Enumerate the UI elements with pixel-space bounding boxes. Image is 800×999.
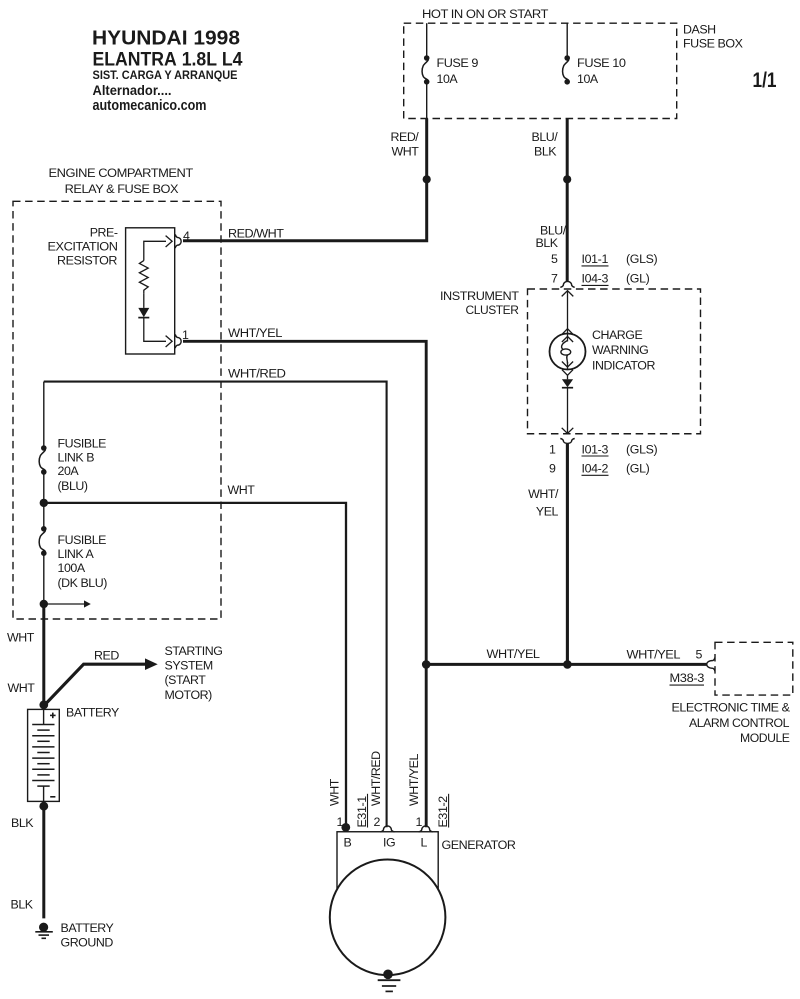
svg-text:INSTRUMENT: INSTRUMENT — [440, 289, 519, 303]
wire WHT/RED: generator IG up, left, to fusible link B — [44, 382, 387, 828]
svg-text:10A: 10A — [577, 72, 599, 86]
svg-text:RED/: RED/ — [391, 130, 420, 144]
svg-text:SIST. CARGA Y ARRANQUE: SIST. CARGA Y ARRANQUE — [93, 68, 238, 82]
svg-text:RESISTOR: RESISTOR — [57, 254, 118, 268]
wire BLK battery to ground — [42, 801, 45, 918]
fuse F9 symbol — [424, 55, 430, 61]
svg-text:automecanico.com: automecanico.com — [93, 98, 207, 114]
junction node battery + — [39, 700, 48, 709]
svg-text:BLK: BLK — [534, 144, 557, 158]
battery BAT1 outline — [28, 709, 60, 801]
resistor module R1 box — [126, 228, 175, 354]
svg-text:9: 9 — [549, 462, 556, 476]
svg-text:5: 5 — [551, 252, 558, 266]
svg-text:PRE-: PRE- — [90, 226, 118, 240]
ground G2 generator ground — [383, 970, 393, 980]
svg-text:(BLU): (BLU) — [58, 479, 88, 493]
wire WHT/YEL bus horizontal — [426, 663, 707, 666]
wire RED/WHT heavy: fuse9 down, left to resistor pin4 — [183, 119, 427, 241]
svg-text:RELAY & FUSE BOX: RELAY & FUSE BOX — [65, 182, 178, 196]
svg-text:BLK: BLK — [536, 236, 559, 250]
svg-text:I04-2: I04-2 — [582, 462, 609, 476]
generator circle — [330, 860, 446, 976]
svg-text:(GLS): (GLS) — [626, 442, 658, 456]
arrowhead below bulb — [562, 370, 573, 376]
svg-text:SYSTEM: SYSTEM — [165, 659, 213, 673]
wire left vertical thin segments — [43, 382, 45, 448]
wire BLU/BLK heavy: fuse10 down to cluster — [566, 119, 569, 282]
arrowhead above bulb — [562, 329, 573, 335]
svg-text:STARTING: STARTING — [165, 644, 223, 658]
battery bottom stub — [43, 786, 45, 801]
svg-text:BLK: BLK — [11, 898, 34, 912]
arrowhead starting system — [145, 658, 158, 670]
battery plates — [32, 725, 54, 787]
svg-text:FUSE BOX: FUSE BOX — [683, 37, 743, 51]
svg-text:(GL): (GL) — [626, 272, 650, 286]
svg-text:WHT: WHT — [7, 631, 35, 645]
svg-text:WHT/YEL: WHT/YEL — [407, 754, 421, 806]
connector bump IG — [380, 826, 394, 832]
internal wire of R1 — [144, 241, 166, 260]
svg-text:(GLS): (GLS) — [626, 252, 658, 266]
wire diode to pin1 — [144, 318, 166, 342]
svg-text:WHT/YEL: WHT/YEL — [487, 647, 541, 661]
junction node WHT tap — [40, 499, 48, 507]
svg-text:EXCITATION: EXCITATION — [48, 240, 118, 254]
svg-text:I01-1: I01-1 — [582, 252, 609, 266]
svg-text:WHT/: WHT/ — [528, 487, 559, 501]
svg-text:2: 2 — [373, 815, 380, 829]
wire heavy battery feed down — [42, 604, 45, 710]
bulb filament — [562, 341, 568, 350]
arrow out of cluster — [562, 428, 574, 434]
connector bump cluster entry — [560, 281, 574, 287]
connector bump pin4 — [175, 234, 181, 248]
svg-text:WHT: WHT — [228, 483, 256, 497]
svg-text:YEL: YEL — [536, 504, 559, 518]
svg-text:LINK B: LINK B — [58, 451, 95, 465]
junction node bus right — [563, 660, 572, 669]
svg-text:(DK BLU): (DK BLU) — [58, 576, 108, 590]
svg-text:CHARGE: CHARGE — [592, 328, 642, 342]
BUS + MODULE — [422, 642, 793, 745]
svg-text:WARNING: WARNING — [592, 343, 648, 357]
svg-text:IG: IG — [383, 835, 395, 849]
wire thin to bulb — [567, 291, 569, 334]
svg-text:FUSIBLE: FUSIBLE — [58, 533, 107, 547]
INSTRUMENT CLUSTER — [440, 224, 701, 665]
svg-text:MOTOR): MOTOR) — [165, 688, 213, 702]
instrument cluster box outline — [528, 289, 701, 434]
svg-text:1: 1 — [549, 442, 556, 456]
svg-text:I04-3: I04-3 — [582, 272, 609, 286]
svg-text:WHT/RED: WHT/RED — [369, 751, 383, 806]
svg-text:WHT: WHT — [328, 778, 342, 806]
TITLE BLOCK — [92, 27, 777, 115]
junction node battery feed — [40, 600, 48, 608]
wire RED to starting system — [44, 664, 147, 706]
svg-text:RED: RED — [94, 649, 119, 663]
svg-text:ALARM CONTROL: ALARM CONTROL — [689, 716, 790, 730]
svg-text:RED/WHT: RED/WHT — [228, 226, 284, 240]
wire thin diode down — [567, 375, 569, 379]
wire WHT/YEL heavy: pin1 right then down to bus and generator L — [183, 341, 426, 827]
svg-text:WHT/YEL: WHT/YEL — [228, 326, 283, 340]
connector bump cluster exit — [560, 439, 574, 444]
svg-text:M38-3: M38-3 — [670, 671, 705, 685]
svg-text:FUSIBLE: FUSIBLE — [58, 437, 107, 451]
svg-text:WHT/RED: WHT/RED — [228, 366, 286, 380]
arrowhead at pin4 — [166, 236, 173, 247]
svg-text:Alternador....: Alternador.... — [93, 82, 172, 98]
diode D1 — [138, 308, 149, 317]
svg-text:FUSE 9: FUSE 9 — [437, 56, 479, 70]
wire fuse10 upper thin — [566, 23, 568, 58]
ground G1 battery ground — [39, 923, 48, 932]
charge warning indicator bulb L1 — [550, 334, 586, 370]
wire fuse9 lower thin — [426, 82, 428, 119]
fuse F10 symbol — [564, 55, 570, 61]
svg-text:FUSE 10: FUSE 10 — [577, 56, 626, 70]
svg-text:(START: (START — [165, 673, 207, 687]
svg-text:10A: 10A — [437, 72, 459, 86]
splice node on BLU/BLK — [563, 175, 571, 183]
svg-text:ENGINE COMPARTMENT: ENGINE COMPARTMENT — [49, 166, 194, 180]
svg-text:HOT IN ON OR START: HOT IN ON OR START — [422, 7, 549, 21]
dash fuse box outline — [404, 23, 677, 118]
svg-text:4: 4 — [183, 229, 190, 243]
fusible link B — [41, 445, 47, 451]
svg-text:HYUNDAI 1998: HYUNDAI 1998 — [92, 27, 240, 50]
arrowhead at pin1 — [166, 336, 173, 347]
wire fuse9 upper thin — [426, 23, 428, 58]
svg-text:WHT/YEL: WHT/YEL — [627, 648, 681, 662]
svg-text:LINK A: LINK A — [58, 547, 95, 561]
engine compartment box outline — [13, 201, 221, 619]
svg-text:I01-3: I01-3 — [582, 442, 609, 456]
fusible link A — [41, 526, 47, 532]
battery + mark — [50, 714, 56, 716]
arrow into cluster — [562, 291, 574, 297]
svg-text:1/1: 1/1 — [753, 69, 777, 92]
connector bump module — [707, 658, 715, 672]
svg-text:BATTERY: BATTERY — [66, 706, 119, 720]
svg-text:100A: 100A — [58, 561, 86, 575]
svg-text:BLK: BLK — [11, 816, 34, 830]
svg-text:20A: 20A — [58, 464, 80, 478]
svg-text:WHT: WHT — [392, 144, 420, 158]
branch arrow to other circuits — [44, 603, 85, 605]
connector bump L — [419, 826, 433, 832]
svg-text:ELECTRONIC TIME &: ELECTRONIC TIME & — [672, 701, 791, 715]
svg-text:GROUND: GROUND — [61, 936, 114, 950]
GENERATOR — [328, 751, 516, 992]
junction node B terminal — [341, 823, 350, 832]
svg-text:E31-1: E31-1 — [355, 796, 369, 828]
wire WHT/YEL heavy cluster to bus — [566, 444, 569, 665]
connector bump pin1 — [175, 334, 181, 348]
wire WHT: junction right then down to generator B — [44, 503, 346, 826]
DASH FUSE BOX (top) — [183, 7, 743, 281]
svg-text:L: L — [421, 835, 428, 849]
bulb inner top arrow — [567, 334, 569, 342]
svg-text:7: 7 — [551, 272, 558, 286]
svg-text:BATTERY: BATTERY — [61, 921, 114, 935]
svg-text:CLUSTER: CLUSTER — [466, 303, 519, 317]
diode D2 — [562, 379, 573, 387]
svg-text:B: B — [344, 835, 352, 849]
ENGINE COMPARTMENT RELAY & FUSE BOX — [13, 166, 426, 827]
svg-text:(GL): (GL) — [626, 462, 650, 476]
svg-text:WHT: WHT — [8, 681, 36, 695]
svg-text:MODULE: MODULE — [740, 731, 790, 745]
resistor R1 zigzag — [139, 261, 148, 294]
module box outline — [715, 642, 793, 695]
svg-text:E31-2: E31-2 — [436, 796, 450, 828]
battery top stub — [43, 709, 45, 724]
splice node on RED/WHT — [423, 175, 431, 183]
battery - mark — [50, 796, 55, 798]
svg-text:BLU/: BLU/ — [532, 130, 559, 144]
svg-text:5: 5 — [696, 648, 703, 662]
LEFT WIRES / BATTERY / STARTING — [7, 604, 222, 950]
bulb inner bottom arrow — [567, 362, 569, 369]
svg-text:DASH: DASH — [683, 22, 716, 36]
junction node battery - — [39, 802, 48, 811]
svg-text:GENERATOR: GENERATOR — [442, 838, 516, 852]
junction node bus left — [422, 660, 431, 669]
svg-text:INDICATOR: INDICATOR — [592, 358, 655, 372]
wire resistor to diode — [143, 293, 145, 308]
generator G1 box — [337, 832, 438, 889]
svg-text:1: 1 — [415, 815, 422, 829]
